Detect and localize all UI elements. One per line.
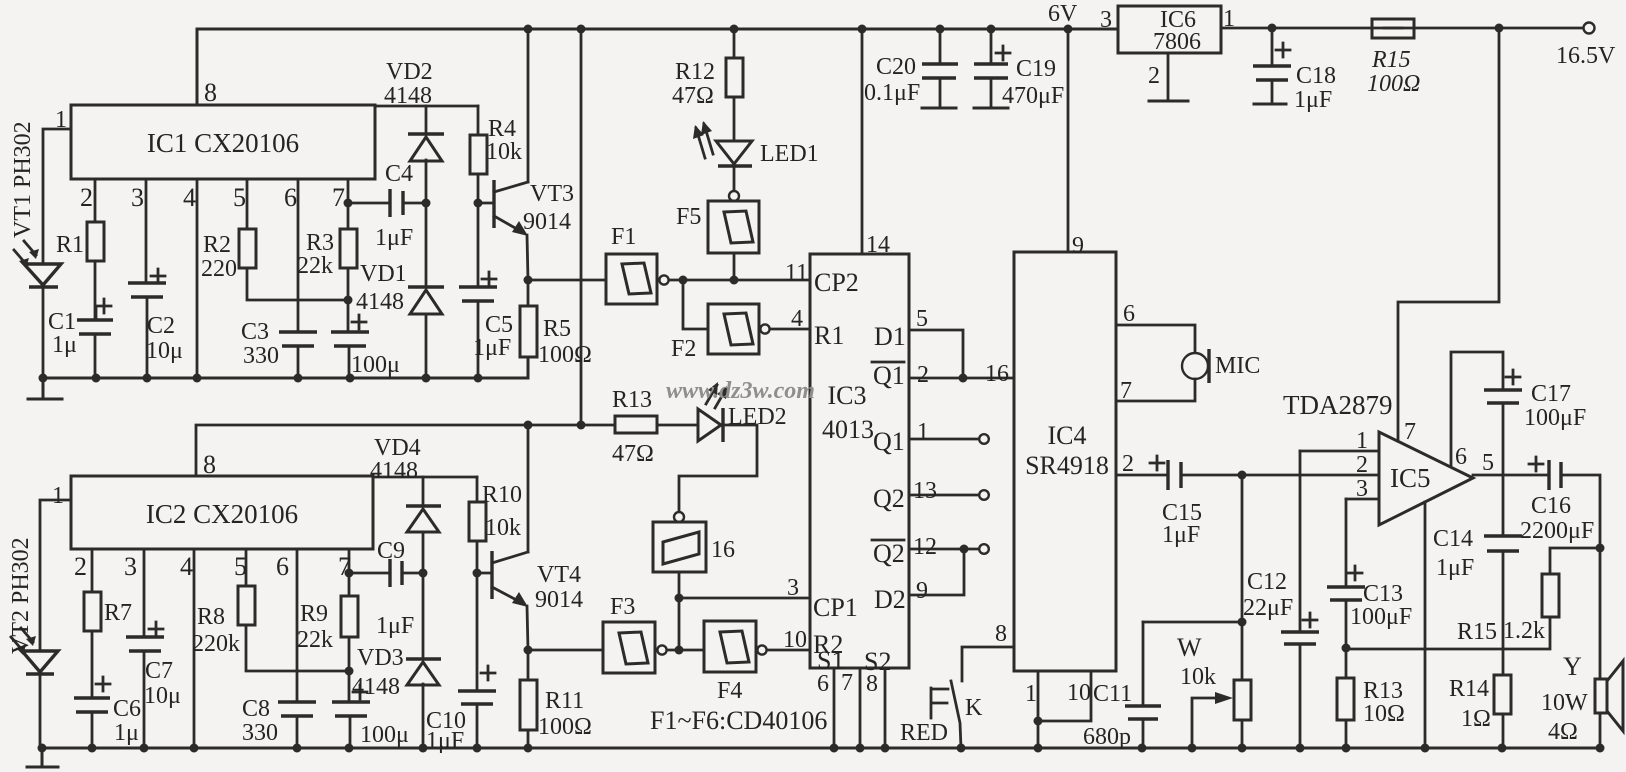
svg-text:3: 3 [1356, 476, 1368, 502]
resistor R4 10k [477, 106, 480, 135]
wire F2 out to R1 pin [770, 328, 810, 331]
svg-text:6: 6 [817, 671, 829, 697]
svg-text:1μ: 1μ [114, 720, 139, 746]
svg-text:IC1 CX20106: IC1 CX20106 [147, 128, 299, 158]
svg-text:10μ: 10μ [146, 338, 183, 364]
resistor R8 220k [238, 586, 255, 625]
svg-text:W: W [1177, 633, 1202, 662]
svg-text:3: 3 [124, 552, 137, 581]
capacitor C9 1uF [390, 559, 402, 587]
transistor VT3 9014 [478, 202, 494, 205]
svg-text:C16: C16 [1531, 493, 1571, 519]
svg-text:1: 1 [1025, 681, 1037, 707]
wire IC1 pin7 [347, 179, 350, 229]
svg-text:10: 10 [1067, 680, 1091, 706]
wire IC5 pin3 to C13 [1346, 498, 1379, 501]
svg-text:330: 330 [242, 720, 278, 746]
svg-text:7: 7 [1404, 419, 1416, 445]
svg-text:10k: 10k [1180, 664, 1216, 690]
svg-text:C19: C19 [1016, 56, 1056, 82]
capacitor C5 1uF [477, 203, 480, 287]
capacitor C6 1u [74, 698, 110, 712]
svg-text:100μ: 100μ [351, 352, 400, 378]
node pin7/C4 junction [344, 199, 353, 208]
svg-text:3: 3 [131, 183, 144, 212]
switch K (RED) [951, 681, 961, 748]
svg-text:4148: 4148 [384, 83, 432, 109]
svg-text:D1: D1 [874, 322, 906, 351]
node dots on y=425 wire [524, 421, 533, 430]
gate F1 [528, 279, 606, 282]
svg-text:IC5: IC5 [1390, 463, 1431, 493]
svg-text:1: 1 [917, 419, 929, 445]
wire IC4 pins1,10 [1037, 671, 1040, 748]
svg-text:VT1 PH302: VT1 PH302 [10, 121, 36, 238]
svg-text:1μF: 1μF [1294, 87, 1332, 113]
wire IC1 pin6 [297, 179, 300, 332]
capacitor 100u (pin7 lower) [332, 702, 370, 716]
svg-text:VT3: VT3 [530, 181, 574, 207]
svg-text:4148: 4148 [370, 458, 418, 484]
svg-text:1: 1 [52, 483, 64, 509]
svg-text:9014: 9014 [523, 209, 571, 235]
svg-text:2: 2 [1356, 452, 1368, 478]
resistor R7 [84, 592, 101, 631]
svg-text:100Ω: 100Ω [1367, 71, 1420, 97]
speaker Y 10W 4ohm [1595, 679, 1607, 713]
svg-text:9: 9 [1072, 233, 1084, 259]
wire IC2 pin1 [40, 500, 71, 650]
svg-text:100μF: 100μF [1350, 604, 1412, 630]
svg-text:16: 16 [711, 537, 735, 563]
svg-text:VD1: VD1 [360, 261, 407, 287]
svg-text:1μF: 1μF [376, 613, 414, 639]
capacitor C17 100uF [1484, 390, 1522, 403]
wire IC4 pin9 [1067, 29, 1070, 252]
svg-text:2: 2 [1122, 451, 1134, 477]
svg-text:14: 14 [866, 232, 890, 258]
svg-text:330: 330 [243, 343, 279, 369]
svg-text:8: 8 [204, 78, 217, 107]
capacitor C14 1uF [1502, 475, 1505, 536]
svg-text:100μ: 100μ [360, 722, 409, 748]
svg-text:CP2: CP2 [814, 268, 859, 297]
svg-text:6: 6 [1123, 301, 1135, 327]
svg-text:1μF: 1μF [426, 728, 464, 754]
svg-text:C7: C7 [145, 658, 173, 684]
svg-text:F1~F6:CD40106: F1~F6:CD40106 [650, 706, 827, 735]
svg-text:MIC: MIC [1215, 353, 1260, 379]
svg-text:9014: 9014 [535, 587, 583, 613]
op IC2 CX20106 box [71, 476, 373, 549]
svg-text:R5: R5 [543, 316, 571, 342]
capacitor C2 10u [128, 283, 166, 297]
op IC6 7806 [1118, 6, 1221, 53]
svg-text:R9: R9 [300, 601, 328, 627]
svg-text:3: 3 [787, 575, 799, 601]
ground IC6 pin2 [1167, 53, 1170, 100]
wire IC4 pin6 to MIC [1116, 325, 1195, 353]
diode VD4 4148 [422, 477, 425, 506]
wire IC1 pin2 [94, 179, 97, 222]
svg-text:4013: 4013 [822, 415, 874, 444]
LED1 [716, 141, 752, 164]
wire R2 to pin7 node [247, 268, 349, 300]
gate F2 [683, 280, 708, 329]
node bottom rail dots [38, 744, 47, 753]
svg-text:RED: RED [900, 720, 948, 746]
svg-text:F3: F3 [610, 594, 635, 620]
wire IC3 pin14 [861, 29, 864, 254]
capacitor C15 1uF [1116, 474, 1167, 477]
wire IC5 pin7 supply [1398, 28, 1499, 441]
svg-text:16.5V: 16.5V [1556, 43, 1616, 69]
wire F6 node down to F3/F4 wire [678, 598, 681, 650]
svg-text:C18: C18 [1296, 63, 1336, 89]
svg-text:www.dz3w.com: www.dz3w.com [666, 378, 815, 404]
svg-text:6: 6 [1455, 444, 1467, 470]
svg-text:C2: C2 [147, 313, 175, 339]
node C9/VD junction [419, 569, 428, 578]
svg-text:R15: R15 [1371, 47, 1411, 73]
svg-text:6V: 6V [1048, 1, 1078, 27]
svg-text:F1: F1 [611, 224, 636, 250]
svg-text:22k: 22k [297, 253, 333, 279]
microphone MIC [1182, 353, 1208, 379]
svg-text:7: 7 [332, 183, 345, 212]
svg-text:3: 3 [1100, 7, 1112, 33]
node LED2/F6 terminal [674, 512, 684, 522]
svg-text:4148: 4148 [352, 674, 400, 700]
wire mid ground rail (upper receiver) [43, 357, 528, 378]
svg-text:VT2 PH302: VT2 PH302 [8, 537, 34, 654]
capacitor C20 0.1uF [939, 29, 942, 64]
svg-text:2: 2 [917, 362, 929, 388]
svg-text:1.2k: 1.2k [1503, 618, 1545, 644]
svg-text:R12: R12 [675, 59, 715, 85]
svg-text:1μF: 1μF [473, 335, 511, 361]
svg-text:C12: C12 [1247, 569, 1287, 595]
svg-text:4Ω: 4Ω [1548, 719, 1578, 745]
svg-text:5: 5 [233, 183, 246, 212]
svg-text:7: 7 [1120, 378, 1132, 404]
node C13/R13/feedback junction [1342, 644, 1351, 653]
op IC1 CX20106 box [71, 105, 375, 179]
svg-text:K: K [965, 695, 983, 721]
resistor R10 10k [476, 477, 479, 502]
capacitor C11 680p [1142, 622, 1145, 706]
svg-text:1μ: 1μ [52, 332, 77, 358]
wire 6V branch to lower receiver (x=581) [580, 29, 583, 425]
svg-text:C8: C8 [242, 696, 270, 722]
svg-text:10k: 10k [485, 515, 521, 541]
node output/R15 junction [1596, 544, 1605, 553]
capacitor C19 470uF [990, 29, 993, 64]
svg-text:16: 16 [985, 361, 1009, 387]
svg-text:C17: C17 [1531, 381, 1571, 407]
resistor R13 10 [1337, 678, 1354, 720]
svg-text:100Ω: 100Ω [538, 342, 592, 368]
svg-text:2: 2 [1148, 63, 1160, 89]
svg-text:IC3: IC3 [828, 381, 867, 410]
capacitor C7 10u [126, 637, 164, 651]
wire IC5 pin1 [1300, 450, 1379, 453]
wire IC6 out to 16.5V [1221, 27, 1583, 30]
wire IC2 pin5 [245, 549, 248, 586]
svg-text:220k: 220k [192, 631, 240, 657]
node mid rail dots [39, 374, 48, 383]
gate F6 [653, 522, 706, 572]
capacitor C12 22uF [1299, 451, 1302, 632]
op IC4 SR4918 box [1014, 252, 1116, 671]
LED2 [657, 424, 698, 427]
svg-text:470μF: 470μF [1002, 83, 1064, 109]
svg-text:100Ω: 100Ω [538, 714, 592, 740]
svg-text:CP1: CP1 [813, 593, 858, 622]
svg-text:Q1: Q1 [873, 361, 905, 390]
svg-text:4: 4 [180, 552, 193, 581]
svg-text:1Ω: 1Ω [1461, 706, 1491, 732]
wire IC3 D2 to Q2bar [909, 549, 964, 595]
resistor R14 1 [1494, 675, 1511, 714]
wire IC3 Q2bar terminal [909, 548, 979, 551]
transistor VT4 9014 [477, 572, 492, 575]
op-amp IC5 TDA2879 [1379, 432, 1473, 525]
wire C11 to C12 node [1143, 621, 1242, 624]
capacitor C1 1u [77, 320, 113, 334]
node rail junction dots [524, 25, 533, 34]
wire 6V top rail [197, 29, 1118, 104]
node 16.5V terminal [1584, 23, 1595, 34]
svg-text:R13: R13 [612, 387, 652, 413]
svg-text:9: 9 [916, 578, 928, 604]
node C15/W junction [1238, 471, 1247, 480]
svg-text:5: 5 [234, 552, 247, 581]
svg-text:11: 11 [785, 260, 808, 286]
svg-text:22μF: 22μF [1243, 595, 1293, 621]
svg-text:IC2 CX20106: IC2 CX20106 [146, 499, 298, 529]
svg-text:R1: R1 [814, 321, 844, 350]
capacitor 100u (pin7) [331, 332, 369, 346]
svg-text:5: 5 [916, 306, 928, 332]
svg-text:R10: R10 [482, 482, 522, 508]
diode VD3 4148 [422, 573, 425, 659]
svg-text:Q2: Q2 [873, 484, 905, 513]
wire F4 out to R2 pin [767, 649, 810, 652]
svg-text:Y: Y [1563, 652, 1582, 681]
node emitter/R11/F3 junction [524, 646, 533, 655]
ground (left of mid rail) [28, 378, 62, 399]
capacitor C18 1uF [1271, 28, 1274, 66]
svg-text:5: 5 [1482, 450, 1494, 476]
resistor R5 100 [527, 280, 530, 306]
resistor R3 22k [340, 229, 357, 268]
svg-text:TDA2879: TDA2879 [1283, 390, 1393, 420]
wire IC2 pin2 [91, 549, 94, 592]
svg-text:LED1: LED1 [760, 141, 819, 167]
svg-text:F5: F5 [676, 204, 701, 230]
svg-text:C14: C14 [1433, 526, 1473, 552]
wire IC5 pin6 to C17 [1451, 352, 1503, 466]
svg-text:6: 6 [284, 183, 297, 212]
wire bottom ground rail [42, 747, 1600, 750]
capacitor C16 2200uF [1529, 457, 1543, 471]
svg-text:C9: C9 [377, 538, 405, 564]
svg-text:C20: C20 [876, 54, 916, 80]
wire Q1bar to IC4 pin16 [909, 377, 1014, 380]
node emitter/R5/F1 junction [524, 276, 533, 285]
svg-text:220: 220 [201, 256, 237, 282]
svg-text:R8: R8 [197, 604, 225, 630]
wire IC1 top-right to R4 [375, 105, 478, 108]
node R10/base/C10 junction [473, 569, 482, 578]
ground lead IC5 [1424, 502, 1427, 748]
wire IC3 pins 6,7,8 to ground [833, 668, 836, 748]
svg-text:10: 10 [783, 627, 807, 653]
wire R8 to pin7 node [246, 625, 349, 671]
svg-text:680p: 680p [1083, 724, 1131, 750]
svg-text:R15: R15 [1457, 619, 1497, 645]
svg-text:47Ω: 47Ω [612, 441, 654, 467]
wire IC2 pin4 [193, 549, 196, 748]
svg-text:VD3: VD3 [357, 645, 404, 671]
transistor VT1 PH302 photodiode [24, 264, 61, 287]
capacitor C13 100uF [1345, 499, 1348, 587]
svg-text:8: 8 [866, 671, 878, 697]
node pin7/C9 junction [345, 569, 354, 578]
node R8/R9 junction [345, 667, 354, 676]
diode VD2 4148 [425, 106, 428, 134]
transistor VT2 PH302 photodiode [22, 651, 58, 674]
wire IC1 pin1 [43, 129, 71, 262]
gate F5 [708, 201, 759, 253]
capacitor C3 330 [279, 332, 317, 346]
svg-text:VD2: VD2 [386, 59, 433, 85]
wire F1 out to CP2 [669, 279, 810, 282]
wire IC2 pin3 [143, 549, 146, 637]
svg-text:F2: F2 [671, 336, 696, 362]
svg-text:6: 6 [276, 552, 289, 581]
svg-text:D2: D2 [874, 585, 906, 614]
capacitor C8 330 [278, 702, 316, 716]
wire CP1 [679, 597, 810, 600]
svg-text:10Ω: 10Ω [1363, 701, 1405, 727]
svg-text:7: 7 [841, 670, 853, 696]
wire IC2 pin7 [348, 549, 351, 596]
svg-text:R14: R14 [1449, 676, 1489, 702]
resistor R12 47 [733, 29, 736, 58]
svg-text:100μF: 100μF [1524, 405, 1586, 431]
wire IC3 Q1 terminal [909, 438, 979, 441]
svg-text:2: 2 [74, 552, 87, 581]
op IC3 4013 box [810, 254, 909, 668]
ground (left of bottom rail) [27, 748, 58, 767]
svg-text:1μF: 1μF [375, 225, 413, 251]
svg-text:1μF: 1μF [1162, 522, 1200, 548]
svg-text:10W: 10W [1541, 690, 1588, 716]
svg-text:R7: R7 [104, 600, 132, 626]
resistor R2 220 [239, 229, 256, 268]
resistor R15 1.2k (feedback) [1550, 548, 1600, 574]
resistor R15 100 (supply) [1372, 19, 1414, 38]
wire IC3 D1 to Q1bar node [909, 330, 963, 378]
capacitor C10 1uF [476, 573, 479, 691]
svg-text:1: 1 [1356, 428, 1368, 454]
wire IC2 pin6 [296, 549, 299, 702]
svg-text:C6: C6 [113, 696, 141, 722]
svg-text:10μ: 10μ [144, 683, 181, 709]
wire IC1 pin5 [246, 179, 249, 229]
node C4/VD junction [422, 199, 431, 208]
svg-text:8: 8 [203, 450, 216, 479]
svg-text:10k: 10k [486, 139, 522, 165]
svg-text:Q1: Q1 [873, 427, 905, 456]
svg-text:0.1μF: 0.1μF [864, 80, 920, 106]
svg-text:C3: C3 [241, 319, 269, 345]
node F6/CP1 junction [675, 594, 684, 603]
svg-text:SR4918: SR4918 [1025, 451, 1109, 480]
svg-text:2: 2 [80, 183, 93, 212]
svg-text:VT4: VT4 [537, 562, 581, 588]
svg-text:4: 4 [183, 183, 196, 212]
svg-text:2200μF: 2200μF [1520, 518, 1594, 544]
svg-text:12: 12 [913, 534, 937, 560]
wire IC4 pin8 to switch K [962, 647, 1014, 681]
node R4/base/C5 junction [474, 199, 483, 208]
wire IC3 Q2 terminal [909, 494, 979, 497]
node LED1/F5 terminal [729, 191, 739, 201]
svg-text:R2: R2 [203, 232, 231, 258]
resistor R1 [87, 222, 104, 261]
svg-text:13: 13 [913, 478, 937, 504]
wire IC5 output pin5 [1473, 474, 1548, 477]
svg-text:LED2: LED2 [728, 404, 787, 430]
svg-text:4148: 4148 [356, 289, 404, 315]
svg-text:IC4: IC4 [1048, 421, 1087, 450]
wire IC4 pin7 to MIC [1116, 379, 1195, 401]
wire IC1 pin3 [145, 179, 148, 283]
svg-text:R11: R11 [545, 688, 584, 714]
diode VD1 4148 [425, 203, 428, 287]
svg-text:8: 8 [995, 621, 1007, 647]
svg-text:C11: C11 [1093, 681, 1132, 707]
wire IC2 top-right to R10 [373, 476, 477, 479]
gate F3 [528, 649, 603, 652]
resistor R9 22k [341, 596, 358, 637]
capacitor C4 1uF [390, 189, 403, 217]
svg-text:22k: 22k [297, 627, 333, 653]
svg-text:C4: C4 [385, 161, 413, 187]
svg-text:F4: F4 [717, 678, 742, 704]
svg-text:4: 4 [791, 306, 803, 332]
resistor R11 100 [527, 650, 530, 680]
gate F4 [704, 621, 756, 672]
wire IC1 pin4 [196, 179, 199, 378]
svg-text:Q2: Q2 [873, 539, 905, 568]
svg-text:7806: 7806 [1153, 29, 1201, 55]
wire IC2 pin8 supply wire y=425 [196, 425, 581, 476]
node R2/R3 junction [344, 296, 353, 305]
resistor R13 47 (LED2) [581, 424, 615, 427]
svg-text:47Ω: 47Ω [672, 83, 714, 109]
svg-text:1μF: 1μF [1436, 555, 1474, 581]
svg-text:R1: R1 [56, 232, 84, 258]
potentiometer W 10k [1238, 618, 1247, 627]
